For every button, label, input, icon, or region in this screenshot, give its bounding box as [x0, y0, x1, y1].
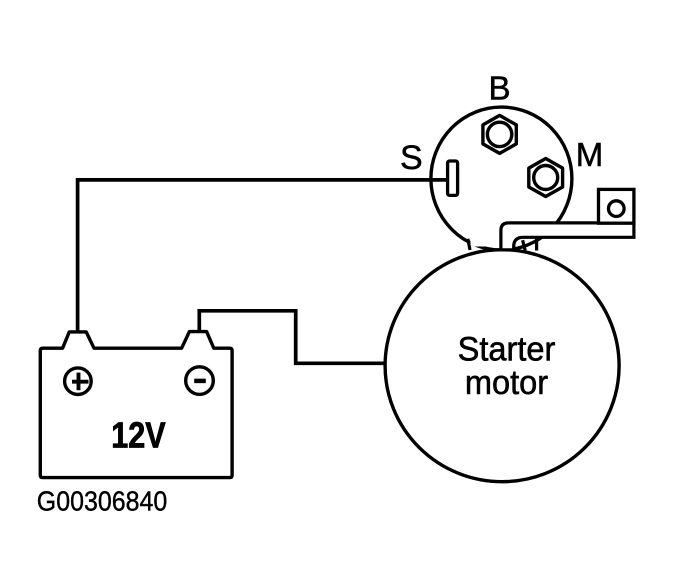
mounting bracket arm with hooked end — [501, 223, 634, 250]
starter motor body (circle) — [385, 250, 619, 482]
svg-text:G00306840: G00306840 — [37, 486, 167, 517]
bracket bolt hole — [609, 201, 625, 217]
wire from battery negative post to starter motor case — [199, 311, 388, 364]
battery negative terminal symbol — [186, 367, 214, 395]
wire from battery positive post to solenoid S terminal — [78, 180, 450, 336]
bracket mounting square — [599, 189, 634, 223]
mask over solenoid arc sliver at neck — [471, 236, 490, 247]
drive housing neck line right slant — [523, 240, 526, 250]
battery case with terminal posts — [40, 332, 232, 478]
drive housing neck line left — [468, 239, 470, 250]
svg-text:S: S — [400, 139, 423, 177]
svg-text:M: M — [576, 136, 604, 173]
svg-text:Starter: Starter — [458, 331, 556, 369]
drive housing neck line right vertical — [535, 239, 538, 251]
terminal bolt M (hex with washer circle) — [529, 159, 563, 197]
svg-text:12V: 12V — [111, 414, 165, 455]
battery positive terminal symbol — [65, 368, 92, 395]
S terminal blade — [448, 161, 458, 195]
svg-text:B: B — [488, 69, 510, 106]
solenoid body (circle) — [431, 107, 572, 250]
svg-text:motor: motor — [465, 364, 548, 402]
terminal bolt B (hex with washer circle) — [483, 115, 516, 153]
